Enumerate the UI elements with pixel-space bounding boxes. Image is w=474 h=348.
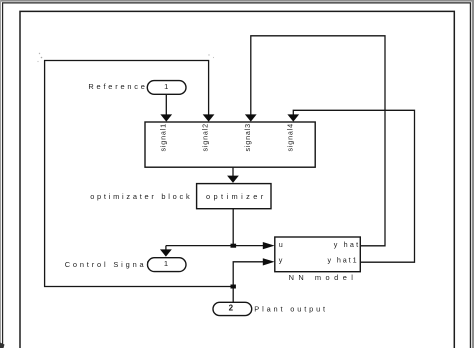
arrowhead into signal3 [245, 114, 257, 121]
svg-text:NN model: NN model [289, 273, 358, 282]
svg-text:y hat: y hat [334, 240, 361, 249]
junction dot plant-output [231, 285, 236, 289]
wire plant-output net: junction to left, up, across top, down to signal2 [45, 61, 234, 287]
port label signal3 [243, 123, 252, 151]
wire junction down to inport 2 [232, 287, 234, 303]
arrowhead into signal1 [160, 114, 172, 121]
arrowhead into signal4 [287, 114, 299, 121]
inport oval 1 Reference [147, 81, 186, 95]
bottom-left ink blob [0, 343, 5, 348]
svg-text:signal3: signal3 [243, 123, 252, 151]
outport oval 1 Control Signal [148, 258, 187, 272]
outer gray scan edge top [0, 0, 474, 2]
svg-text:optimizater block: optimizater block [90, 192, 192, 201]
wire junction to y input corner [233, 262, 263, 287]
arrowhead into optimizer [227, 176, 239, 183]
arrowhead into Control Signal [160, 249, 172, 256]
svg-text:signal4: signal4 [286, 123, 295, 151]
wire y hat feedback to signal3 [251, 36, 385, 246]
port label signal2 [201, 123, 210, 151]
port label signal1 [158, 123, 167, 151]
arrowhead into signal2 [203, 114, 215, 121]
wire optimizer output down to control net [232, 209, 234, 246]
svg-text:2: 2 [229, 303, 234, 312]
svg-text:u: u [279, 240, 283, 249]
mux block signals [145, 122, 315, 167]
svg-text:y: y [279, 256, 283, 265]
svg-text:optimizer: optimizer [206, 192, 267, 201]
NN model block [275, 237, 361, 272]
wire mux output to optimizer [232, 167, 234, 176]
wire reference to signal1 [165, 94, 167, 115]
junction dot control net [231, 244, 237, 248]
optimizer block U1 [197, 184, 271, 209]
arrowhead into y [263, 258, 275, 265]
svg-text:y hat1: y hat1 [328, 256, 359, 265]
svg-text:1: 1 [164, 82, 168, 91]
arrowhead into u [263, 242, 275, 249]
inport oval 2 Plant output [213, 302, 252, 315]
wire y hat1 feedback to signal4 [293, 110, 414, 262]
scan speckle noise dots [39, 53, 40, 54]
svg-text:Plant output: Plant output [254, 304, 328, 313]
svg-text:Reference: Reference [88, 82, 147, 91]
wire control net horizontal [166, 245, 264, 247]
svg-text:Control Signal: Control Signal [65, 260, 151, 269]
outer gray scan edge right [472, 0, 474, 348]
svg-text:signal2: signal2 [201, 123, 210, 151]
svg-text:1: 1 [164, 259, 168, 268]
wire corner down to Control Signal outport [165, 246, 167, 250]
outer gray scan edge left [0, 0, 1, 348]
svg-text:signal1: signal1 [158, 123, 167, 151]
port label signal4 [286, 123, 295, 151]
